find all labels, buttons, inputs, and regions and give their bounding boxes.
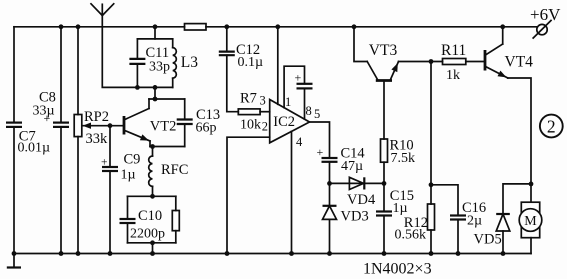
label R10 <box>390 137 414 153</box>
svg-text:0.1µ: 0.1µ <box>238 55 264 70</box>
wire RP2 branch upper <box>77 27 79 115</box>
wire IC2 pin4 to rail <box>291 131 293 253</box>
svg-text:66p: 66p <box>196 121 217 136</box>
value 1µ <box>393 201 408 216</box>
node C10 loop top <box>150 194 155 199</box>
svg-text:RP2: RP2 <box>84 109 109 125</box>
figure number 2 <box>540 115 563 138</box>
capacitor C14 <box>322 158 338 162</box>
polarity + of C14 <box>317 145 324 159</box>
node C16 rail <box>456 251 461 256</box>
tank top wire <box>137 38 172 40</box>
svg-text:1N4002×3: 1N4002×3 <box>363 261 432 278</box>
diode VD5 <box>496 214 510 231</box>
svg-text:2200p: 2200p <box>130 227 165 242</box>
svg-text:IC2: IC2 <box>273 114 295 130</box>
svg-text:+6V: +6V <box>530 5 561 24</box>
svg-text:10k: 10k <box>240 118 261 133</box>
wire RP2 branch lower <box>77 137 79 254</box>
value 33k <box>86 131 109 147</box>
label +6V <box>530 5 561 24</box>
svg-text:R11: R11 <box>441 42 466 59</box>
wire C14 lower <box>329 162 331 184</box>
polarity + of pin1-8 cap <box>295 71 302 85</box>
value 33p <box>149 60 170 75</box>
wire C12 upper <box>226 27 228 52</box>
svg-text:4: 4 <box>296 135 303 149</box>
wire C9 branch upper <box>109 126 111 167</box>
wire antenna lead down to tank bottom <box>102 27 137 88</box>
node emitter/RFC junction <box>150 144 155 149</box>
capacitor C7 <box>6 123 22 127</box>
node pin2 rail <box>225 251 230 256</box>
svg-text:VD4: VD4 <box>347 192 376 208</box>
value 1µ <box>121 168 136 183</box>
C10 loop top wire <box>128 195 176 197</box>
diode VD4 <box>349 177 364 189</box>
polarity + of C8 <box>44 111 51 125</box>
wire VD3 lower <box>329 219 331 253</box>
wire IC2 output <box>310 122 330 158</box>
wire motor to rail <box>530 238 532 254</box>
label VT3 <box>369 42 398 59</box>
caption 1N4002×3 <box>363 261 432 278</box>
svg-text:33p: 33p <box>149 60 170 75</box>
node detector junction <box>327 181 332 186</box>
svg-text:8: 8 <box>306 104 312 118</box>
wire VT3 base to R10 <box>383 81 385 140</box>
pin 5 <box>314 107 320 121</box>
label VD3 <box>341 209 369 225</box>
value 66p <box>196 121 217 136</box>
node C9 bottom <box>108 251 113 256</box>
svg-text:0.01µ: 0.01µ <box>18 140 51 155</box>
capacitor C12 <box>219 52 235 56</box>
capacitor C8 <box>53 123 69 127</box>
svg-text:1µ: 1µ <box>121 168 136 183</box>
resistor R11 <box>443 59 466 65</box>
value 0.1µ <box>238 55 264 70</box>
capacitor C9 <box>102 167 118 171</box>
label C8 <box>39 90 56 106</box>
value 1k <box>446 68 460 83</box>
label C12 <box>236 42 260 58</box>
value 2µ <box>467 214 482 229</box>
node tank bottom tap <box>153 85 158 90</box>
wire C13 branch upper <box>184 99 186 120</box>
wire RP2 wiper to VT2 base <box>83 125 125 127</box>
resistor (decoupling, unlabeled) on top rail <box>185 24 207 30</box>
transistor VT3 <box>354 27 399 81</box>
wire tank bottom tap down <box>154 87 156 99</box>
label L3 <box>181 54 198 71</box>
node antenna/C11 junction <box>135 85 140 90</box>
svg-text:1: 1 <box>285 95 291 109</box>
value 33µ <box>33 103 55 118</box>
node R12 rail <box>429 251 434 256</box>
svg-text:+: + <box>101 157 108 169</box>
inductor L3 branch <box>173 39 177 88</box>
svg-text:0.56k: 0.56k <box>395 228 427 243</box>
wire C10 loop to rail <box>152 243 154 254</box>
label C16 <box>462 200 486 216</box>
wire VD4 line <box>330 182 385 184</box>
inductor RFC <box>149 147 153 197</box>
value 0.56k <box>395 228 427 243</box>
svg-text:VD5: VD5 <box>474 232 502 248</box>
capacitor C16 <box>450 216 466 220</box>
capacitor on pins 1-8 <box>297 84 313 119</box>
node VT4 collector rail <box>500 24 505 29</box>
ground <box>7 254 21 268</box>
C10 loop bottom wire <box>128 242 176 244</box>
svg-text:VT3: VT3 <box>369 42 398 59</box>
diode VD3 <box>323 206 337 220</box>
node VT3 collector rail <box>352 24 357 29</box>
svg-text:+: + <box>295 71 302 85</box>
label C10 <box>138 208 162 224</box>
wire VT3 emitter to R11 <box>399 61 443 63</box>
antenna <box>91 4 114 27</box>
wire IC2 pin2 to ground rail <box>227 137 270 253</box>
label VT4 <box>505 54 534 71</box>
transistor VT2 <box>124 99 150 147</box>
potentiometer RP2 <box>74 115 91 137</box>
capacitor C11 branch <box>129 39 145 88</box>
wire R12 branch upper <box>430 62 432 205</box>
node C15 rail <box>382 251 387 256</box>
label C7 <box>19 129 36 145</box>
svg-text:VD3: VD3 <box>341 209 369 225</box>
svg-text:3: 3 <box>260 94 266 108</box>
wire VD5 tap <box>503 184 531 214</box>
label C13 <box>196 107 220 123</box>
value 10k <box>240 118 261 133</box>
wire R10 lower <box>383 162 385 183</box>
pin 1 <box>285 95 291 109</box>
pin 3 <box>260 94 266 108</box>
svg-text:VT4: VT4 <box>505 54 534 71</box>
wire C13 branch lower <box>184 124 186 147</box>
wire R7 to IC2 pin3 <box>260 111 270 113</box>
resistor in C10 loop right branch <box>172 196 179 243</box>
node R12 tap <box>429 59 434 64</box>
op-amp IC2 <box>270 100 310 143</box>
motor M <box>519 202 542 238</box>
svg-text:1k: 1k <box>446 68 460 83</box>
label C9 <box>124 152 141 168</box>
node tank top on rail <box>153 24 158 29</box>
svg-text:RFC: RFC <box>161 162 188 178</box>
label R12 <box>404 215 428 231</box>
value 47µ <box>341 159 363 174</box>
value 2200p <box>130 227 165 242</box>
wire tank top tap <box>154 27 156 39</box>
wire C15 upper <box>383 183 385 211</box>
label R7 <box>240 91 257 107</box>
node C16 tap <box>429 182 434 187</box>
svg-text:2: 2 <box>547 116 556 136</box>
pin 2 <box>262 120 268 134</box>
label IC2 <box>273 114 295 130</box>
value 0.01µ <box>18 140 51 155</box>
node RP2 top <box>76 24 81 29</box>
node motor branch junction <box>529 182 534 187</box>
svg-text:C9: C9 <box>124 152 141 168</box>
node VD3 rail <box>327 251 332 256</box>
tank bottom wire <box>137 86 172 88</box>
label VT2 <box>150 119 177 135</box>
node C8 bottom <box>59 251 64 256</box>
capacitor C13 <box>177 120 193 125</box>
wire collector node horizontal <box>149 98 185 100</box>
svg-text:+: + <box>317 145 324 159</box>
node bottom-left <box>12 251 17 256</box>
node C12 top <box>224 24 229 29</box>
wire C8 branch upper <box>60 27 62 123</box>
svg-text:7.5k: 7.5k <box>391 151 416 166</box>
svg-text:M: M <box>524 214 537 229</box>
transistor VT4 <box>485 27 508 78</box>
label VD4 <box>347 192 376 208</box>
resistor R12 <box>428 204 435 230</box>
svg-text:C10: C10 <box>138 208 162 224</box>
node C8 top <box>59 24 64 29</box>
svg-text:5: 5 <box>314 107 320 121</box>
label R11 <box>441 42 466 59</box>
svg-text:2µ: 2µ <box>467 214 482 229</box>
node C10 loop bottom <box>150 240 155 245</box>
node VD4 cathode junction <box>382 181 387 186</box>
wire emitter node horizontal <box>150 146 185 148</box>
wire VT4 emitter down right side <box>508 78 531 202</box>
wire R11 to VT4 base <box>466 61 485 63</box>
wire C16 lower <box>457 220 459 254</box>
wire left branch C7 upper <box>13 27 15 123</box>
wire VD3 upper <box>329 183 331 205</box>
svg-text:47µ: 47µ <box>341 159 363 174</box>
pin 8 <box>306 104 312 118</box>
svg-text:+: + <box>44 111 51 125</box>
svg-text:L3: L3 <box>181 54 198 71</box>
node pin4 rail <box>289 251 294 256</box>
wire IC2 V+ from rail <box>277 27 279 105</box>
resistor R10 <box>381 139 388 162</box>
power terminal +6V <box>533 21 551 39</box>
wire C8 branch lower <box>60 127 62 254</box>
wire VD5 lower <box>502 231 504 254</box>
node C9 tap <box>108 123 113 128</box>
wire bottom rail <box>14 253 531 255</box>
label C15 <box>390 188 414 204</box>
wire C15 lower <box>383 216 385 254</box>
pin 4 <box>296 135 303 149</box>
label RFC <box>161 162 188 178</box>
value 7.5k <box>391 151 416 166</box>
wire C16 branch <box>431 185 458 216</box>
node VD5 rail <box>501 251 506 256</box>
capacitor C10 branch <box>120 196 136 243</box>
capacitor C15 <box>376 212 392 216</box>
label VD5 <box>474 232 502 248</box>
wire C12 to R7 <box>227 55 239 111</box>
svg-text:2: 2 <box>262 120 268 134</box>
label C11 <box>146 45 170 61</box>
svg-text:1µ: 1µ <box>393 201 408 216</box>
wire top rail left segment <box>14 26 185 28</box>
resistor R7 <box>238 109 260 115</box>
wire C9 branch lower <box>109 171 111 254</box>
wire R12 lower <box>430 230 432 254</box>
svg-text:R7: R7 <box>240 91 257 107</box>
svg-text:33k: 33k <box>86 131 109 147</box>
label RP2 <box>84 109 109 125</box>
node collector junction <box>153 97 158 102</box>
node IC2 V+ rail <box>275 24 280 29</box>
svg-text:VT2: VT2 <box>150 119 177 135</box>
node C10 rail <box>150 251 155 256</box>
node RP2 bottom <box>76 251 81 256</box>
wire top rail right segment to +6V <box>206 26 537 28</box>
wire left branch C7 lower <box>13 127 15 254</box>
label C14 <box>341 146 366 162</box>
polarity + of C9 <box>101 157 108 169</box>
wire pin1 loop <box>284 66 304 107</box>
